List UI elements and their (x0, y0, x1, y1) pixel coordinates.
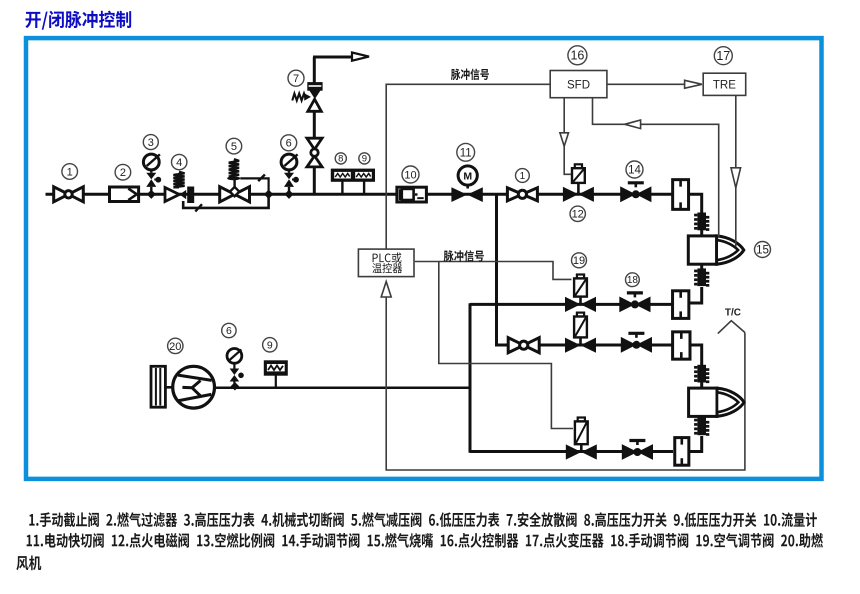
pulse signal wire PLC to air valves (415, 262, 572, 280)
svg-text:6: 6 (286, 138, 292, 150)
svg-text:14: 14 (628, 165, 641, 177)
svg-text:7: 7 (293, 73, 299, 85)
SFD to TRE wire (607, 83, 685, 85)
flex connector burner1 top (697, 213, 706, 231)
riser manual valve (307, 138, 322, 149)
air blower pipe (214, 386, 471, 389)
label circle 11 (457, 143, 475, 161)
label circle 17 (714, 47, 732, 65)
label circle 9b (263, 338, 277, 352)
blower 20 combustion fan (151, 366, 165, 407)
svg-text:12: 12 (572, 209, 584, 221)
svg-text:15: 15 (756, 245, 769, 257)
svg-text:T/C: T/C (725, 308, 741, 319)
PLC box (358, 249, 414, 277)
svg-text:8: 8 (338, 154, 343, 165)
valve 1b manual valve (507, 188, 522, 201)
orifice union main line (673, 180, 689, 210)
pipe from orifice to burner 1 top (689, 194, 702, 212)
svg-text:16: 16 (570, 49, 584, 63)
burner 15 gas nozzle (688, 236, 716, 264)
label circle 15 (755, 242, 771, 258)
pipe into burner1 top (700, 230, 703, 237)
title 开/闭脉冲控制 (25, 11, 131, 30)
svg-text:1: 1 (520, 171, 526, 182)
pulse signal label top (451, 69, 489, 81)
label circle 2 (115, 164, 131, 180)
valve 1 manual shutoff (54, 187, 69, 202)
label circle 1b (516, 169, 530, 183)
valve 4 mechanical shutoff (165, 188, 179, 202)
flex connector burner1 bottom (697, 268, 706, 286)
flame sensing wire burner1 to SFD (593, 98, 719, 237)
label circle 5 (226, 138, 242, 154)
row2 gas pipe to burner2 (497, 344, 674, 347)
label circle 6b (222, 323, 236, 337)
flex connector burner2 top (697, 365, 706, 383)
burner 2 gas nozzle (689, 388, 717, 416)
gauge 3 high pressure gauge with cock (143, 154, 159, 170)
row2 manual valve (508, 338, 524, 353)
orifice row3 (675, 438, 689, 466)
svg-text:18: 18 (627, 275, 639, 286)
label circle 8 (335, 153, 346, 164)
label circle 10 (402, 166, 419, 183)
svg-text:9: 9 (267, 339, 273, 351)
svg-text:M: M (463, 170, 472, 182)
row2 gas solenoid (577, 313, 584, 317)
valve 7 safety relief valve (308, 99, 322, 111)
row2 regulating valve (621, 337, 637, 353)
gauge 6 low pressure gauge with cock (281, 154, 297, 170)
vent arrow (352, 53, 369, 61)
riser to safety vent (313, 168, 316, 195)
SFD wire to solenoid 12 (564, 98, 571, 175)
label circle 9 (359, 153, 370, 164)
svg-text:4: 4 (176, 157, 182, 169)
pulse signal label lower (444, 250, 484, 262)
row3 air solenoid (578, 418, 585, 422)
label circle 3 (143, 135, 158, 150)
svg-text:3: 3 (148, 137, 154, 149)
pulse signal wire PLC to SFD (386, 84, 550, 249)
valve 12 ignition solenoid (575, 164, 582, 168)
gauge 6b low pressure gauge at blower (227, 349, 242, 364)
label circle 18 (626, 273, 640, 287)
gas branch manifold down (495, 194, 498, 346)
flex connector burner2 bottom (697, 418, 706, 436)
pressure switch 9b at blower (264, 361, 287, 375)
svg-text:17: 17 (716, 49, 730, 63)
valve7 spring with arrow (292, 94, 306, 101)
row3 regulating valve (622, 444, 638, 460)
svg-text:19: 19 (573, 255, 585, 267)
svg-text:6: 6 (226, 325, 232, 337)
filter 2 燃气过滤器 (110, 187, 139, 202)
valve 11 electric quick-shut valve (458, 166, 477, 185)
label circle 12 (570, 206, 585, 221)
row3 air pipe (470, 450, 673, 453)
label circle 20 (168, 338, 183, 353)
legend line 3 (16, 556, 41, 571)
SFD box 16 (550, 71, 607, 98)
branch wire to row3 solenoid (439, 262, 573, 429)
label circle 1 (62, 164, 78, 180)
svg-text:2: 2 (120, 167, 126, 179)
blue frame border (26, 38, 822, 479)
regulator bypass line (183, 196, 268, 208)
orifice row2 (673, 332, 690, 359)
valve 19 air solenoid row1 (577, 275, 584, 279)
svg-text:11: 11 (460, 147, 472, 159)
row1 air pipe (470, 303, 673, 306)
label circle 7 (288, 70, 304, 86)
svg-text:SFD: SFD (567, 79, 590, 91)
legend line 1 (29, 512, 817, 527)
regulator sensing line (240, 178, 268, 192)
label circle 19 (572, 253, 587, 268)
legend line 2 (27, 533, 823, 548)
air manifold (469, 303, 472, 453)
label circle 14 (626, 161, 643, 178)
orifice row1 (673, 291, 689, 319)
valve 18 manual regulating row1 (619, 297, 635, 313)
TRE box 17 (703, 73, 746, 95)
main gas pipe (46, 193, 674, 196)
valve 5 gas pressure regulator (220, 187, 235, 202)
svg-text:9: 9 (362, 154, 367, 165)
svg-text:1: 1 (67, 166, 73, 178)
label circle 6 (281, 135, 297, 151)
temperature feedback wire T/C to PLC (386, 297, 745, 470)
ignition wire TRE to burner1 (735, 95, 737, 246)
svg-text:10: 10 (404, 169, 416, 181)
valve 14 manual regulating valve (620, 186, 636, 202)
label circle 4 (172, 154, 187, 169)
flow meter 10 (397, 187, 427, 202)
label circle 16 (568, 46, 587, 65)
pressure switches 8 and 9 (331, 169, 374, 181)
svg-text:20: 20 (169, 341, 181, 353)
svg-text:5: 5 (231, 141, 237, 153)
svg-text:TRE: TRE (713, 79, 736, 91)
